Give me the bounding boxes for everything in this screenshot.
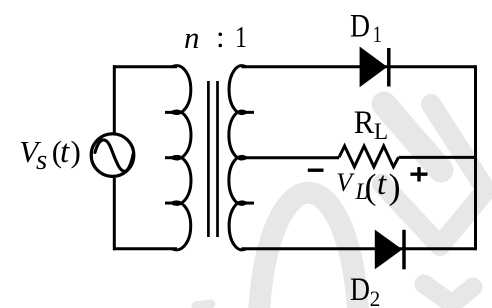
svg-text:L: L <box>374 119 388 144</box>
svg-text:D: D <box>350 9 370 45</box>
label Vs(t) <box>19 134 81 176</box>
wire top (secondary to D1 to right edge) <box>242 65 476 68</box>
secondary winding loop 2 <box>229 111 246 159</box>
primary winding loop 2 <box>172 111 191 159</box>
diode D2 cathode bar <box>402 230 406 269</box>
svg-text:n: n <box>184 20 200 55</box>
wire bottom-left horizontal <box>113 247 177 250</box>
primary winding loop 4 <box>172 202 191 250</box>
wire center tap to resistor <box>246 156 340 159</box>
wire bottom (secondary to D2 to right edge) <box>242 247 476 250</box>
secondary cusp stub 1 <box>246 111 255 114</box>
svg-text:1: 1 <box>373 22 382 47</box>
primary cusp stub 1 <box>165 111 173 114</box>
watermark 2024 (traced gray strokes) <box>196 104 486 308</box>
svg-text::: : <box>216 19 225 54</box>
label n : 1 <box>184 19 247 55</box>
secondary winding loop 1 <box>229 66 246 114</box>
svg-text:t: t <box>377 166 387 202</box>
label minus sign <box>308 168 324 171</box>
wire left vertical upper <box>113 65 116 134</box>
svg-text:s: s <box>36 144 47 176</box>
primary winding loop 1 <box>172 66 191 114</box>
svg-text:(: ( <box>365 166 377 206</box>
wire left vertical lower <box>113 177 116 251</box>
voltage source Vs circle <box>91 134 134 177</box>
secondary winding loop 3 <box>229 156 246 204</box>
secondary winding loop 4 <box>229 202 246 250</box>
resistor RL zigzag <box>339 146 399 167</box>
primary cusp stub 3 <box>165 202 173 205</box>
label RL <box>354 105 388 144</box>
wire resistor to right edge <box>399 156 476 159</box>
voltage source sine symbol <box>95 140 133 171</box>
diode D1 triangle <box>360 47 388 88</box>
wire right edge vertical <box>474 65 477 250</box>
svg-text:2: 2 <box>370 286 381 308</box>
diode D1 cathode bar <box>387 48 391 87</box>
diode D2 triangle <box>375 230 403 270</box>
svg-text:): ) <box>71 134 81 169</box>
svg-text:D: D <box>350 272 370 308</box>
primary winding loop 3 <box>172 156 191 204</box>
svg-text:1: 1 <box>235 19 247 54</box>
label plus sign <box>410 167 427 181</box>
secondary cusp stub 3 <box>246 202 255 205</box>
svg-text:R: R <box>354 105 375 141</box>
transformer core line left <box>207 81 210 237</box>
transformer core line right <box>216 81 219 237</box>
label D1 <box>350 9 382 48</box>
wire top-left horizontal <box>113 65 177 68</box>
primary cusp stub 2 <box>165 156 173 159</box>
svg-text:): ) <box>389 166 401 206</box>
label VL(t) <box>336 166 400 206</box>
svg-text:t: t <box>60 134 70 170</box>
label D2 <box>350 272 380 308</box>
